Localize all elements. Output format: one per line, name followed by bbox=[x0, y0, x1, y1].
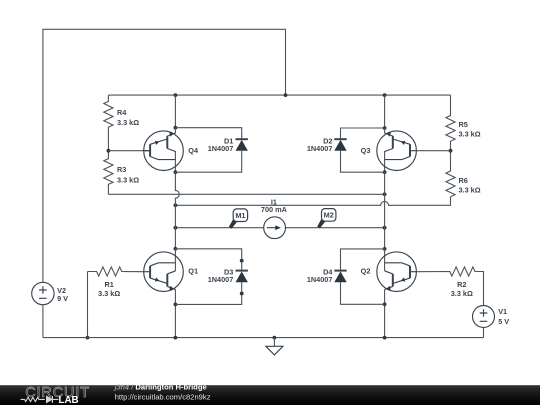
current source I1 bbox=[261, 197, 288, 238]
wire bottom bus bbox=[43, 337, 484, 339]
wire Q1 collector stub bbox=[174, 249, 176, 271]
svg-text:j3h4 / Darlington H-bridge: j3h4 / Darlington H-bridge bbox=[114, 383, 207, 392]
wire Q3 emitter stub bbox=[384, 128, 386, 134]
wire Q3 column down bbox=[384, 172, 386, 249]
svg-text:Q4: Q4 bbox=[188, 146, 199, 155]
wire cross B (Q4 column to R6 bottom) with hop over Q3 column bbox=[175, 197, 450, 206]
svg-text:1N4007: 1N4007 bbox=[307, 275, 333, 284]
node cross B / Q4 column bbox=[174, 203, 178, 207]
wire R1 left leg bbox=[87, 272, 89, 338]
node D4 bottom bbox=[383, 302, 387, 306]
svg-text:R1: R1 bbox=[105, 280, 114, 289]
svg-text:700 mA: 700 mA bbox=[261, 205, 288, 214]
wire Q2 emitter to bottom bus bbox=[384, 289, 386, 337]
svg-text:9 V: 9 V bbox=[57, 294, 68, 303]
svg-text:3.3 kΩ: 3.3 kΩ bbox=[117, 118, 139, 127]
meter M2 bbox=[317, 209, 336, 229]
svg-text:1N4007: 1N4007 bbox=[208, 275, 234, 284]
resistor R5 bbox=[446, 95, 455, 151]
svg-text:3.3 kΩ: 3.3 kΩ bbox=[117, 175, 139, 184]
node D1 top bbox=[174, 126, 178, 130]
ground bbox=[266, 336, 283, 355]
diode D2 bbox=[307, 128, 385, 172]
node bottom bus / Q1 bbox=[174, 336, 178, 340]
svg-text:R3: R3 bbox=[117, 165, 126, 174]
node D1 bottom bbox=[174, 170, 178, 174]
svg-text:R4: R4 bbox=[117, 108, 127, 117]
svg-text:1N4007: 1N4007 bbox=[208, 144, 234, 153]
wire top bus bbox=[108, 94, 450, 96]
node top bus / Q3 column bbox=[383, 93, 387, 97]
voltage source V2 bbox=[32, 282, 68, 304]
transistor Q4 bbox=[144, 131, 184, 171]
wire Q4 column down with hop over cross A bbox=[175, 172, 179, 249]
node D2 top bbox=[383, 126, 387, 130]
wire Q3 column: bus to D2 top node bbox=[384, 95, 386, 128]
node cross A / Q3 column bbox=[383, 192, 387, 196]
wire M row right bbox=[286, 227, 385, 229]
resistor R2 bbox=[416, 267, 483, 306]
node D3 top bbox=[174, 247, 178, 251]
svg-text:3.3 kΩ: 3.3 kΩ bbox=[459, 186, 481, 195]
node top bus / Q4 collector column bbox=[174, 93, 178, 97]
diode D1 bbox=[175, 128, 248, 173]
wire Q4 column: bus to D1 top node bbox=[174, 95, 176, 128]
svg-text:LAB: LAB bbox=[59, 395, 79, 405]
wire Q1 emitter to bottom bus bbox=[174, 289, 176, 337]
svg-text:5 V: 5 V bbox=[498, 317, 509, 326]
transistor Q1 bbox=[144, 252, 184, 292]
resistor R1 bbox=[88, 267, 144, 276]
voltage source V1 bbox=[473, 306, 510, 328]
svg-text:M1: M1 bbox=[235, 211, 245, 220]
node top bus / top loop bbox=[284, 93, 288, 97]
node R5/R6 junction bbox=[449, 149, 453, 153]
node M row / Q4 column bbox=[174, 226, 178, 230]
svg-text:3.3 kΩ: 3.3 kΩ bbox=[451, 289, 473, 298]
svg-text:http://circuitlab.com/c82n9kz: http://circuitlab.com/c82n9kz bbox=[115, 393, 211, 402]
transistor Q3 bbox=[377, 131, 417, 171]
node R4/R3 junction bbox=[107, 149, 111, 153]
logo resistor-diode glyph bbox=[21, 397, 45, 401]
wire cross A (R3 bottom to Q3 column) bbox=[108, 193, 384, 195]
node R1 / bottom bus bbox=[86, 336, 90, 340]
svg-text:V1: V1 bbox=[498, 307, 507, 316]
svg-text:3.3 kΩ: 3.3 kΩ bbox=[98, 289, 120, 298]
wire M row left bbox=[175, 227, 263, 229]
wire Q2 collector stub bbox=[384, 249, 386, 271]
node bottom bus / Q2 bbox=[383, 336, 387, 340]
diode D4 bbox=[307, 249, 385, 304]
svg-text:Q1: Q1 bbox=[188, 267, 198, 276]
footer bar bbox=[0, 383, 540, 405]
node M row / Q3 column bbox=[383, 226, 387, 230]
wire V1 bottom bbox=[483, 328, 485, 338]
svg-text:R5: R5 bbox=[459, 120, 468, 129]
meter M1 bbox=[229, 209, 248, 229]
svg-text:1N4007: 1N4007 bbox=[307, 144, 333, 153]
wire V2 bottom bbox=[42, 305, 44, 338]
svg-text:R2: R2 bbox=[457, 280, 466, 289]
diode D3 bbox=[175, 249, 248, 305]
wire Q3 base bbox=[416, 150, 450, 152]
wire Q4 collector stub bbox=[174, 151, 176, 172]
node D4 top bbox=[383, 247, 387, 251]
node D3 bottom bbox=[174, 303, 178, 307]
svg-text:R6: R6 bbox=[459, 176, 468, 185]
svg-text:M2: M2 bbox=[324, 211, 334, 220]
wire Q4 base bbox=[108, 150, 150, 152]
transistor Q2 bbox=[377, 252, 417, 292]
wire Q4 emitter stub bbox=[174, 128, 176, 134]
resistor R6 bbox=[446, 151, 455, 197]
resistor R4 bbox=[104, 95, 113, 151]
wire top loop bbox=[43, 29, 286, 282]
svg-text:Q3: Q3 bbox=[361, 146, 371, 155]
svg-text:3.3 kΩ: 3.3 kΩ bbox=[459, 129, 481, 138]
wire Q3 collector stub bbox=[384, 151, 386, 172]
node D2 bottom bbox=[383, 170, 387, 174]
resistor R3 bbox=[104, 151, 113, 195]
svg-text:Q2: Q2 bbox=[361, 267, 371, 276]
